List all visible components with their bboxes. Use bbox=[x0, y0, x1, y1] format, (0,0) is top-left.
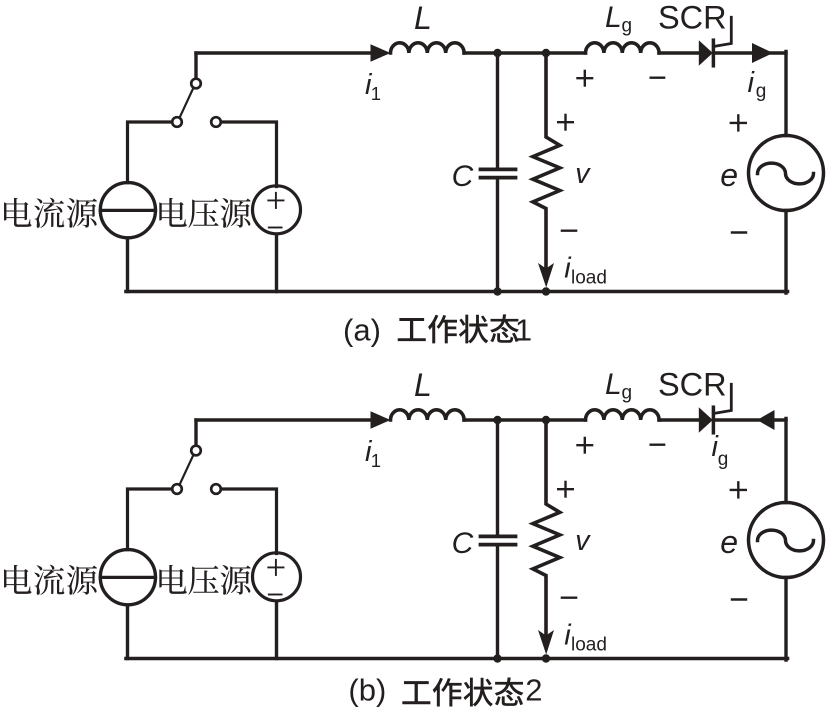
svg-text:1: 1 bbox=[371, 83, 381, 104]
svg-text:C: C bbox=[452, 527, 474, 560]
svg-text:e: e bbox=[720, 524, 738, 560]
svg-text:L: L bbox=[605, 1, 622, 34]
svg-text:v: v bbox=[575, 158, 591, 190]
svg-text:g: g bbox=[756, 81, 767, 102]
svg-text:L: L bbox=[414, 0, 432, 36]
svg-text:1: 1 bbox=[371, 450, 381, 471]
svg-text:SCR: SCR bbox=[658, 366, 727, 402]
svg-text:e: e bbox=[720, 157, 738, 193]
svg-text:SCR: SCR bbox=[658, 0, 727, 35]
svg-text:(b): (b) bbox=[348, 673, 386, 708]
svg-text:g: g bbox=[622, 16, 633, 37]
svg-text:2: 2 bbox=[525, 673, 542, 708]
svg-text:(a): (a) bbox=[343, 313, 381, 348]
svg-text:C: C bbox=[452, 160, 474, 193]
svg-text:v: v bbox=[575, 525, 591, 557]
svg-text:load: load bbox=[571, 267, 607, 288]
svg-text:g: g bbox=[622, 383, 633, 404]
svg-text:L: L bbox=[605, 368, 622, 401]
svg-text:g: g bbox=[718, 449, 729, 470]
svg-text:1: 1 bbox=[515, 313, 532, 348]
svg-text:load: load bbox=[571, 634, 607, 655]
svg-text:L: L bbox=[414, 367, 432, 403]
